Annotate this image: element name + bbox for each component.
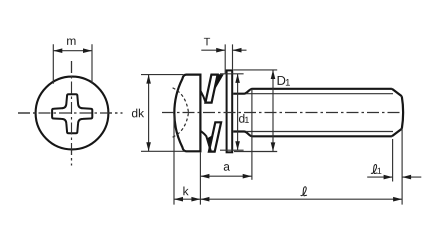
spring washer top black section (210, 74, 224, 95)
label k (183, 187, 188, 196)
m dimension line (53, 50, 92, 52)
phillips recess cross (52, 94, 92, 133)
shank top outline with thread run-up (233, 89, 392, 94)
side view centerline (162, 112, 400, 114)
label dk (132, 109, 144, 118)
tip chamfer bottom (392, 129, 402, 137)
pan head side view (174, 75, 200, 152)
front view: vertical centerline (71, 61, 73, 166)
dk extension lines (141, 75, 185, 152)
a dimension line (200, 175, 251, 177)
label m (67, 38, 75, 44)
l1 dimension lines (367, 176, 421, 178)
a extension line (thread start) (251, 89, 253, 180)
label a (224, 164, 230, 171)
dk dimension line (148, 75, 150, 152)
neck fillet bottom (200, 131, 211, 152)
D1 arrows (271, 70, 276, 79)
label D1 (278, 76, 290, 86)
front view: horizontal centerline (18, 112, 123, 114)
dk arrows (146, 75, 151, 84)
l1 extension line (392, 139, 394, 182)
m dimension extension lines (53, 44, 92, 84)
k extension lines (174, 114, 200, 205)
thread root line bottom (246, 131, 393, 133)
T extension lines (225, 44, 232, 73)
l dimension line (200, 198, 402, 200)
l extension line at tip (401, 129, 403, 205)
recess hidden dashed lines (173, 88, 189, 137)
D1 extension lines (233, 70, 277, 152)
spring washer bottom black section (207, 136, 215, 152)
cross centerlines over recess (18, 112, 123, 114)
D1 dimension line (272, 70, 274, 151)
m arrows (53, 48, 62, 53)
label T (204, 38, 210, 46)
flat washer (227, 70, 233, 152)
k dimension line (174, 198, 200, 200)
label l1 (371, 165, 377, 174)
tip end arc (402, 96, 403, 128)
d1 dimension line (237, 74, 239, 150)
a arrows (200, 174, 209, 179)
T arrows (216, 48, 225, 53)
spring washer top coil (205, 75, 217, 103)
spring washer bottom coil (209, 122, 221, 151)
neck fillet top (200, 91, 205, 103)
label d1 (239, 114, 249, 123)
label l (301, 187, 307, 196)
tip chamfer top (392, 89, 402, 97)
l arrows (200, 197, 209, 202)
d1 arrows (235, 74, 240, 83)
d1 extension lines (220, 74, 244, 150)
thread root line top (246, 93, 393, 95)
k arrows (174, 197, 183, 202)
head front view circle (dk outline) (36, 77, 109, 150)
T dimension lines (201, 49, 246, 51)
l1 arrows (384, 175, 393, 180)
shank bottom outline with thread run-up (233, 132, 392, 137)
